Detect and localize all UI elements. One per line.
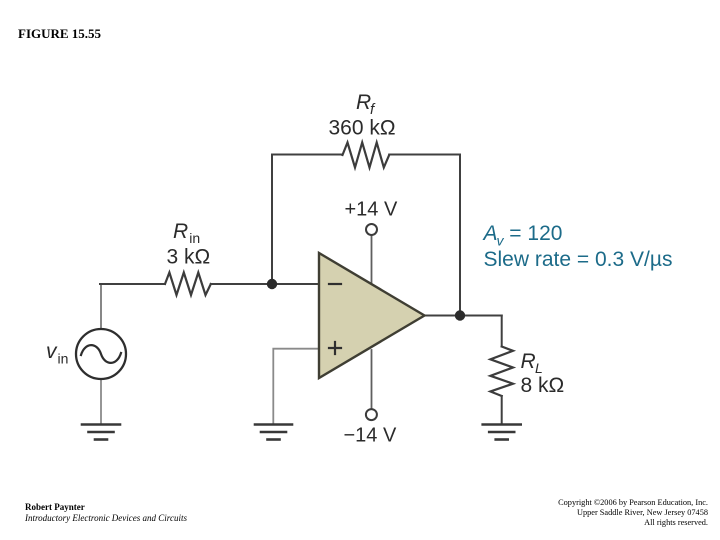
svg-text:in: in	[58, 351, 69, 367]
wire: input horizontal right segment to op-amp	[211, 283, 319, 285]
ground (noninverting input)	[255, 425, 292, 440]
+14V terminal circle	[366, 224, 377, 235]
wire: input horizontal left segment	[100, 283, 165, 285]
svg-text:= 120: = 120	[509, 222, 562, 245]
svg-text:A: A	[482, 222, 498, 245]
wire: feedback top right segment	[389, 154, 460, 156]
wire: -14V supply vertical	[371, 350, 373, 409]
op-amp plus sign	[329, 342, 341, 354]
ground (RL)	[483, 425, 521, 440]
svg-text:+14 V: +14 V	[345, 199, 398, 221]
resistor Rin zigzag	[165, 273, 211, 296]
svg-text:in: in	[189, 230, 200, 246]
author credit	[25, 502, 187, 524]
svg-text:8 kΩ: 8 kΩ	[521, 374, 565, 397]
svg-text:v: v	[497, 233, 505, 249]
wire: output segment	[425, 315, 502, 317]
source vin sine wave	[81, 345, 121, 363]
wire: feedback loop left vertical	[271, 155, 273, 285]
copyright block	[558, 498, 708, 528]
wire: vin top vertical to input node	[100, 284, 102, 330]
wire: RL top vertical	[501, 316, 503, 347]
svg-text:360 kΩ: 360 kΩ	[329, 117, 396, 140]
resistor RL zigzag (vertical)	[490, 347, 513, 397]
svg-text:Slew rate = 0.3 V/µs: Slew rate = 0.3 V/µs	[484, 248, 673, 271]
wire: RL bottom vertical to ground	[501, 396, 503, 423]
wire: vin bottom vertical to ground	[100, 379, 102, 423]
ground (vin)	[82, 425, 120, 440]
node: inverting input junction dot	[267, 279, 277, 289]
figure title	[18, 26, 101, 42]
svg-text:R: R	[173, 220, 188, 243]
wire: feedback right vertical down to output node	[459, 155, 461, 316]
svg-text:R: R	[521, 350, 536, 373]
op-amp U1 triangle	[319, 253, 425, 378]
resistor Rf zigzag	[343, 143, 390, 168]
svg-text:v: v	[46, 340, 58, 363]
svg-text:−14 V: −14 V	[344, 425, 397, 447]
source vin circle	[76, 329, 126, 379]
-14V terminal circle	[366, 409, 377, 420]
wire: +14V supply vertical	[371, 235, 373, 316]
svg-text:f: f	[370, 101, 376, 118]
svg-text:R: R	[356, 91, 371, 114]
op-amp minus sign	[329, 283, 341, 285]
wire: noninverting input to ground	[273, 349, 319, 423]
wire: feedback top left segment	[272, 154, 343, 156]
svg-text:3 kΩ: 3 kΩ	[167, 246, 211, 269]
node: output junction dot	[455, 310, 465, 320]
